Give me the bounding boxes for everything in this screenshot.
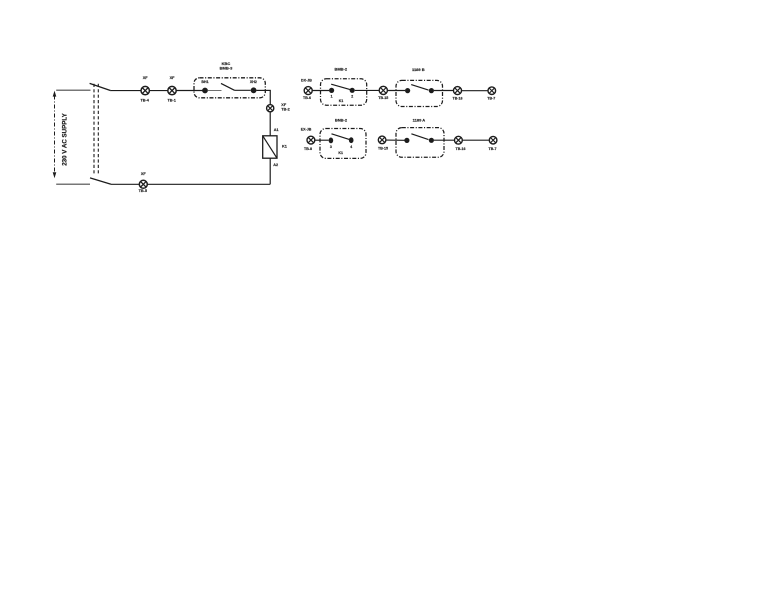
wire relay to bottom line — [147, 158, 270, 184]
switch blade top — [90, 83, 111, 90]
svg-text:A1: A1 — [274, 128, 279, 132]
label TB-16 row1 — [453, 96, 463, 100]
label 1189 A — [413, 117, 426, 122]
label pin 4 — [350, 145, 352, 149]
svg-text:XF: XF — [141, 172, 147, 176]
wire TB-6 to BMB-2 — [312, 90, 329, 92]
svg-text:XF: XF — [143, 76, 149, 80]
wire 1189B to TB-16 — [434, 90, 454, 92]
fuse TB-15 row1 — [379, 86, 387, 94]
wire bottom supply stub — [56, 183, 90, 185]
enclosure 1189 A — [396, 128, 444, 158]
panel boundary dashed line 2 — [97, 84, 99, 174]
wire TB-15 to 1189B — [387, 90, 405, 92]
wire TB-15 to 1189A — [386, 139, 405, 141]
svg-text:TB-6: TB-6 — [303, 96, 311, 100]
contact dot 1189A right — [429, 138, 434, 143]
svg-text:K1: K1 — [339, 99, 344, 103]
relay coil K1 — [263, 136, 277, 158]
label XF (TB-2) — [281, 103, 287, 107]
wire bottom segment — [111, 183, 139, 185]
fuse EX-JB TB-8 — [307, 136, 315, 144]
label TB-1 — [167, 98, 175, 102]
label pin 2 — [351, 95, 353, 99]
label TB-5 — [139, 189, 147, 193]
wire KBC out to corner — [257, 90, 271, 105]
fuse XF TB-4 — [141, 86, 149, 94]
wire TB-2 to relay K1 — [269, 112, 271, 136]
label K1 relay — [282, 145, 287, 149]
label XF (TB-5) — [141, 172, 147, 176]
svg-text:4: 4 — [350, 145, 352, 149]
label XH2 — [250, 80, 257, 84]
wire 1189A to TB-16 row2 — [434, 139, 455, 141]
label TB-15 row1 — [378, 96, 388, 100]
contact dot 1189B left — [405, 88, 410, 93]
svg-text:XF: XF — [281, 103, 287, 107]
svg-text:TB-15: TB-15 — [378, 96, 388, 100]
panel boundary dashed line 1 — [93, 84, 95, 174]
label TB-2 — [281, 107, 289, 111]
label TB-8 — [304, 147, 312, 151]
fuse TB-7 row1 — [488, 87, 496, 95]
contact dot 1189B right — [429, 88, 434, 93]
svg-text:TB-5: TB-5 — [139, 189, 147, 193]
fuse XF TB-2 — [267, 105, 274, 112]
svg-text:230 V AC SUPPLY: 230 V AC SUPPLY — [61, 112, 68, 165]
label 1189 B — [412, 67, 425, 72]
contact dot BMB-2 pin2 — [350, 88, 355, 93]
label BH1 — [201, 80, 208, 84]
label TB-7 row2 — [489, 147, 497, 151]
svg-text:TB-7: TB-7 — [489, 147, 497, 151]
svg-text:DX-JB: DX-JB — [301, 78, 312, 82]
svg-text:EX-JB: EX-JB — [301, 128, 312, 132]
label pin 1 — [331, 95, 333, 99]
wire BMB-2 to TB-15 — [355, 89, 380, 91]
supply dimension line 230V AC — [53, 91, 57, 179]
svg-text:BNB-2: BNB-2 — [335, 117, 348, 122]
svg-text:TB-15: TB-15 — [378, 146, 388, 150]
svg-text:1189 B: 1189 B — [412, 67, 425, 72]
contact blade KBC — [221, 83, 235, 90]
svg-text:TB-16: TB-16 — [453, 96, 463, 100]
label K1 BNB-2 — [338, 151, 343, 155]
label K1 BMB-2 — [339, 99, 344, 103]
wire top supply stub — [56, 89, 90, 91]
svg-text:TB-4: TB-4 — [140, 98, 149, 102]
svg-text:1: 1 — [331, 95, 333, 99]
contact blade 1189A — [411, 134, 428, 140]
enclosure BMB-2 — [321, 79, 367, 105]
svg-text:TB-1: TB-1 — [167, 98, 175, 102]
label BNB-2 — [335, 117, 348, 122]
svg-text:TB-8: TB-8 — [304, 147, 312, 151]
contact blade BMB-2 — [331, 84, 351, 90]
contact dot BNB-2 pin3 — [329, 138, 334, 144]
svg-text:BMB-2: BMB-2 — [334, 67, 347, 72]
svg-text:2: 2 — [351, 95, 353, 99]
svg-text:K1: K1 — [282, 145, 287, 149]
label pin 3 — [330, 145, 332, 149]
fuse TB-15 row2 — [378, 136, 386, 144]
fuse XF TB-5 — [139, 180, 147, 188]
svg-text:1189 A: 1189 A — [413, 117, 426, 122]
label TB-6 — [303, 96, 311, 100]
svg-text:TB-16: TB-16 — [456, 147, 466, 151]
wire top line segment 1 — [111, 90, 141, 92]
label TB-15 row2 — [378, 146, 388, 150]
label XF (TB-1) — [170, 76, 176, 80]
svg-text:K1: K1 — [338, 151, 343, 155]
contact dot 1189A left — [404, 138, 409, 143]
fuse TB-16 row1 — [454, 87, 462, 95]
contact dot BNB-2 pin4 — [349, 137, 354, 143]
switch blade bottom — [90, 178, 111, 184]
label BMB-2 — [334, 67, 347, 72]
contact dot BMB-2 pin1 — [329, 88, 334, 93]
wire TB-16 to TB-7 row1 — [462, 90, 489, 92]
label TB-4 — [140, 98, 149, 102]
label XF (TB-4) — [143, 76, 149, 80]
svg-text:TB-7: TB-7 — [487, 96, 495, 100]
contact terminal BH1 — [202, 88, 208, 94]
wire TB-16 to TB-7 row2 — [462, 139, 489, 141]
svg-text:TB-2: TB-2 — [281, 107, 289, 111]
contact terminal XH2 — [251, 87, 257, 93]
label DX-JB — [301, 78, 312, 82]
label TB-16 row2 — [456, 147, 466, 151]
label 230 V AC SUPPLY — [61, 112, 68, 165]
contact blade BNB-2 — [332, 134, 351, 140]
label A1 — [274, 128, 279, 132]
enclosure 1189 B — [396, 80, 443, 106]
label TB-7 row1 — [487, 96, 495, 100]
wire blade to XH2 — [235, 89, 251, 91]
wire top line segment 2 — [149, 90, 167, 92]
label EX-JB — [301, 128, 312, 132]
label A2 — [273, 163, 278, 167]
svg-text:BH1: BH1 — [201, 80, 208, 84]
wire TB-8 to BNB-2 — [315, 139, 329, 141]
fuse XF TB-1 — [168, 86, 176, 94]
fuse TB-7 row2 — [489, 136, 497, 144]
wire top line segment 3 — [176, 90, 202, 92]
contact blade 1189B — [411, 85, 428, 91]
svg-text:XH2: XH2 — [250, 80, 257, 84]
enclosure KBC BMB-3 — [194, 78, 265, 98]
svg-text:BMB-3: BMB-3 — [220, 66, 233, 71]
label BMB-3 — [220, 66, 233, 71]
contact fixed stub — [208, 90, 222, 92]
fuse TB-16 row2 — [455, 136, 463, 144]
svg-text:XF: XF — [170, 76, 176, 80]
svg-text:3: 3 — [330, 145, 332, 149]
fuse DX-JB TB-6 — [304, 87, 312, 95]
enclosure BNB-2 — [320, 129, 366, 159]
label KBC — [222, 61, 231, 66]
svg-text:A2: A2 — [273, 163, 278, 167]
